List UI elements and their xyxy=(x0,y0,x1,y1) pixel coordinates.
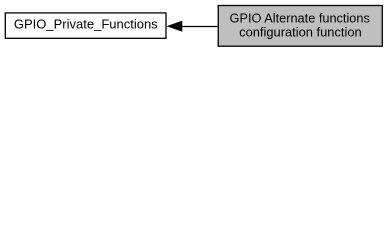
svg-text:GPIO Alternate functions: GPIO Alternate functions xyxy=(230,11,370,26)
node GPIO Alternate functions configuration function xyxy=(218,6,382,47)
svg-text:GPIO_Private_Functions: GPIO_Private_Functions xyxy=(14,16,158,31)
node GPIO_Private_Functions xyxy=(5,13,166,38)
wire xyxy=(181,26,218,28)
arrowhead xyxy=(168,21,182,31)
svg-text:configuration function: configuration function xyxy=(239,24,362,39)
